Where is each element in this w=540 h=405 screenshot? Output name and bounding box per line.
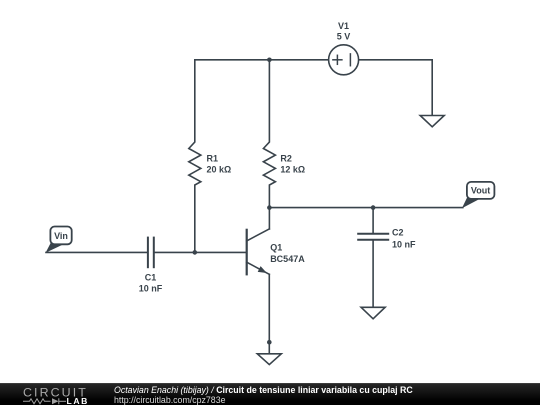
- svg-text:R2: R2: [280, 154, 292, 164]
- svg-text:R1: R1: [207, 154, 219, 164]
- node output / C2: [371, 205, 376, 210]
- wire top rail left (R1 top to V1 left): [195, 59, 329, 61]
- svg-text:C2: C2: [392, 227, 404, 237]
- node emitter / ground: [267, 340, 272, 345]
- ground (C2): [361, 307, 385, 319]
- svg-text:BC547A: BC547A: [270, 254, 305, 264]
- CircuitLab logo: [0, 384, 100, 405]
- wire C2 branch: [372, 208, 374, 233]
- footer bar: [0, 383, 540, 405]
- wire collector lead: [268, 208, 270, 229]
- svg-text:Vout: Vout: [471, 186, 490, 196]
- node R2 / collector / output: [267, 205, 272, 210]
- wire base lead (Vin to C1): [46, 251, 148, 253]
- node junction dots: [193, 58, 376, 345]
- svg-text:20 kΩ: 20 kΩ: [207, 165, 232, 175]
- capacitor C2: [358, 234, 388, 240]
- footer text: [114, 385, 413, 405]
- svg-text:10 nF: 10 nF: [392, 240, 416, 250]
- svg-text:12 kΩ: 12 kΩ: [280, 165, 305, 175]
- transistor Q1: [247, 229, 270, 274]
- wire C2 to ground: [372, 241, 374, 308]
- svg-text:5 V: 5 V: [337, 31, 351, 41]
- capacitor C1: [148, 238, 154, 268]
- svg-text:V1: V1: [338, 21, 349, 31]
- ground (top right): [420, 116, 444, 127]
- svg-text:Vin: Vin: [54, 231, 68, 241]
- svg-text:C1: C1: [145, 273, 157, 283]
- svg-text:LAB: LAB: [67, 396, 89, 405]
- resistor R2: [263, 60, 275, 208]
- flag Vout: [462, 182, 495, 208]
- voltage source V1: [329, 45, 359, 75]
- wire emitter lead: [268, 274, 270, 354]
- wire output rail: [269, 207, 462, 209]
- ground (emitter): [257, 354, 281, 365]
- svg-text:10 nF: 10 nF: [139, 283, 163, 293]
- flag Vin: [46, 227, 72, 253]
- svg-text:Q1: Q1: [270, 243, 282, 253]
- wire C1 to base: [155, 251, 247, 253]
- node top rail / R2: [267, 58, 272, 63]
- wire top rail right (V1 right to corner, down to ground): [359, 60, 433, 116]
- node R1 / base wire: [193, 250, 198, 255]
- resistor R1: [189, 60, 201, 253]
